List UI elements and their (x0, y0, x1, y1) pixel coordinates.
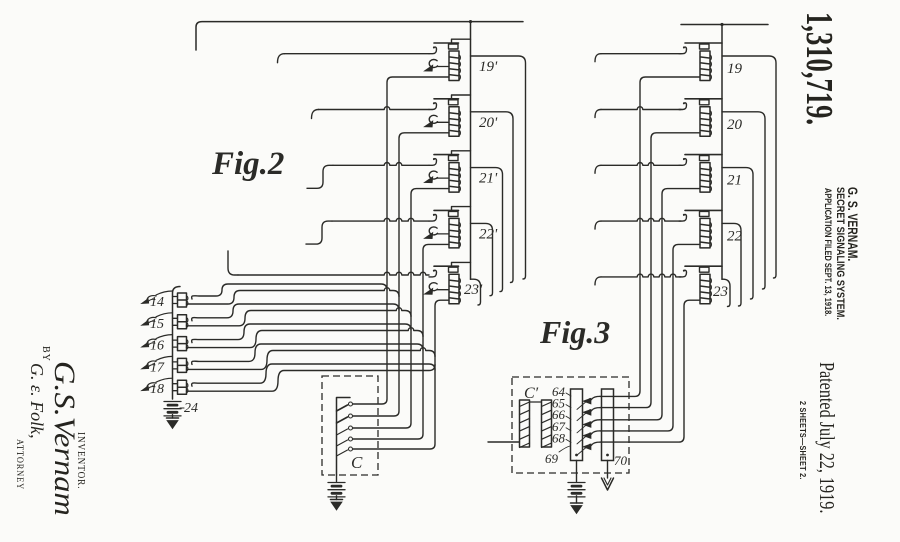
relay 20 armature (679, 102, 687, 109)
label Fig.3 (539, 314, 610, 350)
commutator bar 70 (602, 389, 614, 461)
winding stack left of C' (520, 400, 530, 448)
relay 19' armature (429, 46, 437, 53)
svg-text:68: 68 (552, 430, 566, 445)
relay 20' spring arrow (425, 115, 450, 127)
svg-text:14: 14 (150, 295, 164, 310)
wire back-contact loop 20' (471, 112, 514, 283)
label 68 (552, 430, 571, 445)
wire back-contact loop 19 (722, 56, 776, 278)
wire back-contact loop 22 (722, 223, 741, 306)
coil 21' (449, 163, 460, 193)
svg-text:70: 70 (614, 453, 628, 468)
relay 16 armature arrow (141, 339, 156, 347)
label 21 (727, 173, 742, 189)
wire coil 19' to distributor segment (353, 77, 449, 404)
relay 20' contact bar (434, 95, 471, 105)
label 20' (479, 115, 498, 131)
wire label 15 to bus (156, 313, 173, 317)
svg-text:19: 19 (727, 61, 743, 77)
header APPLICATION FILED (823, 188, 833, 316)
battery below 69 (568, 483, 585, 497)
wire back-contact loop 23' (471, 279, 481, 305)
label 19' (479, 59, 498, 75)
header SECRET SIGNALING SYSTEM (834, 187, 846, 320)
coil 19 (700, 51, 711, 81)
wire label 17 to bus (156, 356, 173, 360)
svg-text:23: 23 (713, 284, 728, 300)
relay 23' contact bar (434, 262, 471, 272)
wire linking winding stacks (530, 401, 542, 403)
coil 23 (700, 274, 711, 304)
wire feed line to armature 23 (595, 274, 681, 285)
svg-text:20': 20' (479, 115, 498, 131)
svg-text:22': 22' (479, 226, 498, 242)
label 66 (552, 407, 571, 422)
ground below 69 (571, 496, 583, 514)
signature G. S. Vernam (47, 361, 81, 516)
wire coil 14 lower lead (187, 288, 400, 304)
wire feed line to armature 21 (595, 163, 681, 174)
wire back-contact loop 21' (471, 168, 503, 292)
wire bus relays 14-18 (173, 287, 181, 400)
svg-text:18: 18 (150, 382, 164, 397)
label 20 (727, 117, 743, 133)
contact segment 4 of C (337, 437, 353, 446)
coil 16 (173, 337, 188, 351)
label 23 (713, 284, 728, 300)
label 64 (552, 384, 571, 399)
coil 20' (449, 107, 460, 137)
INVENTOR. (75, 432, 86, 489)
wire bus Fig.2 relay frame (470, 22, 472, 280)
relay 23' armature (429, 270, 437, 277)
contact segment 3 of C (337, 426, 353, 435)
wire coil 17 upper lead (192, 344, 423, 364)
wire coil 15 upper lead (192, 304, 399, 321)
coil 22 (700, 218, 711, 248)
relay 22' spring arrow (425, 227, 450, 239)
relay 19 armature (679, 46, 687, 53)
header G. S. VERNAM (845, 187, 861, 261)
label C' (524, 385, 539, 402)
wire feed line to armature 20 (595, 107, 681, 118)
label 21' (479, 171, 498, 187)
label 23' (464, 282, 483, 298)
wire coil 19 to magnet winding 64 (600, 77, 700, 396)
patented date (814, 362, 839, 513)
commutator bar 69 (571, 389, 583, 461)
brush arrow 1 between 69 and 70 (577, 396, 600, 409)
svg-text:C: C (351, 453, 363, 472)
svg-text:19': 19' (479, 59, 498, 75)
wire label 14 to bus (156, 291, 173, 295)
svg-text:69: 69 (545, 451, 559, 466)
relay 22 armature (679, 214, 687, 221)
brush arrow 3 between 69 and 70 (577, 420, 600, 433)
relay 19 contact bar (685, 43, 722, 49)
wire line-4 to armature 22' (306, 218, 429, 244)
relay 19' contact bar (434, 39, 471, 49)
wire top feed bus (Fig.2) (196, 20, 523, 50)
wire coil 23' to distributor segment (353, 300, 449, 449)
label 67 (552, 419, 571, 434)
svg-text:Fig.3: Fig.3 (539, 314, 610, 350)
wire bar 69 to battery (576, 461, 578, 482)
wire label 18 to bus (156, 378, 173, 382)
coil 21 (700, 163, 711, 193)
wire coil 20' to distributor segment (353, 133, 449, 416)
svg-text:21: 21 (727, 173, 742, 189)
contact segment 5 of C (337, 447, 353, 456)
coil 19' (449, 51, 460, 81)
ATTORNEY (14, 439, 24, 490)
relay 20 contact bar (685, 99, 722, 105)
wire external lead into C' (488, 441, 520, 443)
wire coil 22' to distributor segment (353, 244, 449, 439)
coil 20 (700, 107, 711, 137)
relay 21' spring arrow (425, 171, 450, 183)
label 22 (727, 228, 743, 244)
wire coil 15 lower lead (187, 308, 412, 326)
wire feed line to armature 19 (595, 54, 681, 62)
battery of C (328, 483, 345, 497)
label 15 (150, 317, 164, 332)
label 70 (614, 453, 628, 468)
relay 23' spring arrow (425, 283, 450, 295)
relay 23 armature (679, 270, 687, 277)
wire line-5 to armature 23' (228, 251, 429, 275)
relay 21 armature (679, 158, 687, 165)
wire line-3 to armature 21' (307, 163, 429, 189)
relay 14 armature arrow (141, 296, 156, 304)
magnet box C' (dashed) (512, 377, 629, 473)
brush arm C (337, 398, 351, 476)
wire coil 22 to magnet winding 67 (600, 244, 700, 431)
relay 21' armature (429, 158, 437, 165)
attorney signature (26, 363, 47, 439)
brush arrow 5 between 69 and 70 (577, 442, 600, 455)
label 18 (150, 382, 164, 397)
relay 22 contact bar (685, 210, 722, 216)
wire top feed bus (Fig.3) (681, 23, 768, 26)
wire coil 20 to magnet winding 65 (600, 133, 700, 408)
ground arrow below 70 (602, 461, 614, 491)
wire bus Fig.3 relay frame (721, 25, 723, 280)
label 17 (150, 360, 165, 375)
wire coil 21' to distributor segment (353, 189, 449, 428)
BY (40, 346, 51, 362)
svg-text:16: 16 (150, 339, 164, 354)
brush arrow 2 between 69 and 70 (577, 408, 600, 421)
coil 15 (173, 315, 188, 329)
contact segment 2 of C (337, 414, 353, 423)
label 65 (552, 396, 571, 411)
svg-text:22: 22 (727, 228, 743, 244)
wire brush arm C to battery (336, 475, 338, 482)
coil 14 (173, 293, 188, 307)
coil 18 (173, 380, 188, 394)
label 16 (150, 339, 164, 354)
coil 17 (173, 358, 188, 372)
coil 22' (449, 218, 460, 248)
relay 18 armature arrow (141, 383, 156, 391)
relay 22' contact bar (434, 207, 471, 217)
svg-text:24: 24 (184, 401, 198, 416)
svg-text:15: 15 (150, 317, 164, 332)
wire coil 18 upper lead (192, 364, 435, 386)
winding stack right of C' (542, 400, 552, 448)
wire back-contact loop 19' (471, 56, 526, 279)
wire coil 23 to magnet winding 68 (600, 300, 700, 442)
patent number 1,310,719. (797, 12, 841, 125)
wire coil 16 upper lead (192, 324, 411, 343)
relay 21' contact bar (434, 151, 471, 161)
wire coil 17 lower lead (187, 348, 436, 370)
label 19 (727, 61, 743, 77)
svg-text:17: 17 (150, 360, 165, 375)
relay 17 armature arrow (141, 361, 156, 369)
distributor box C (dashed) (322, 376, 378, 475)
wire coil 14 upper lead (192, 284, 387, 299)
wire coil 18 lower lead (187, 365, 436, 392)
svg-text:21': 21' (479, 171, 498, 187)
contact segment 1 of C (337, 402, 353, 411)
wire back-contact loop 23 (722, 279, 730, 306)
wire back-contact loop 22' (471, 223, 493, 295)
relay 20' armature (429, 102, 437, 109)
sheet note (798, 401, 808, 480)
svg-text:Fig.2: Fig.2 (211, 146, 284, 182)
wire coil 21 to magnet winding 66 (600, 189, 700, 420)
label 14 (150, 295, 164, 310)
wire line-1 to armature 19' (278, 54, 430, 63)
relay 21 contact bar (685, 155, 722, 161)
svg-text:20: 20 (727, 117, 743, 133)
label Fig.2 (211, 146, 284, 182)
label 22' (479, 226, 498, 242)
brush arrow 4 between 69 and 70 (577, 431, 600, 444)
relay 15 armature arrow (141, 317, 156, 325)
battery 24 (164, 402, 181, 416)
ground below battery 24 (167, 415, 179, 429)
relay 19' spring arrow (425, 60, 450, 72)
relay 22' armature (429, 214, 437, 221)
label 69 (545, 446, 570, 466)
label C (351, 453, 363, 472)
coil 23' (449, 274, 460, 304)
ground below C (331, 496, 343, 510)
relay 23 contact bar (685, 266, 722, 272)
wire label 16 to bus (156, 335, 173, 339)
wire back-contact loop 20 (722, 112, 765, 289)
wire line-2 to armature 20' (312, 107, 430, 119)
wire feed line to armature 22 (595, 218, 681, 229)
wire back-contact loop 21 (722, 168, 753, 299)
label 24 (180, 401, 198, 416)
wire coil 16 lower lead (187, 328, 424, 348)
